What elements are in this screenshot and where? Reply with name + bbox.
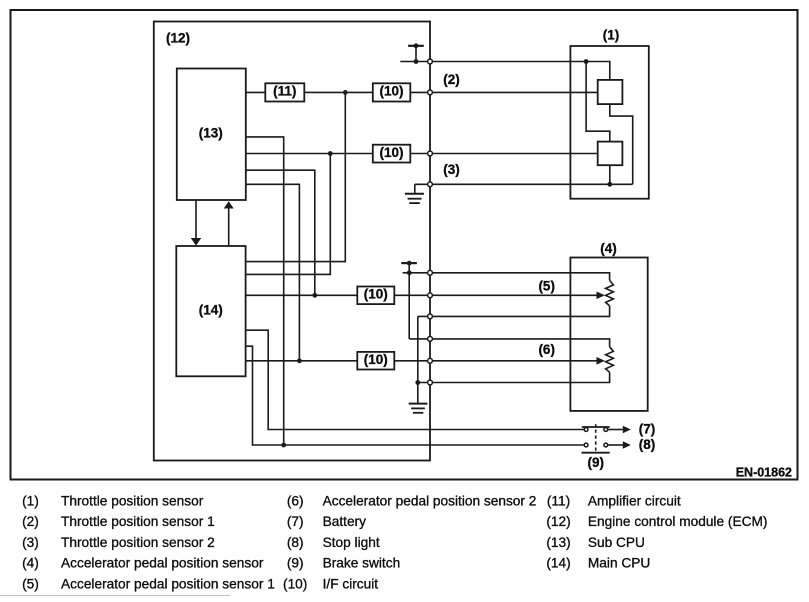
svg-text:Throttle position sensor 1: Throttle position sensor 1 [61, 514, 215, 529]
svg-text:(1): (1) [22, 493, 39, 508]
svg-text:(10): (10) [283, 577, 307, 592]
svg-text:(5): (5) [538, 279, 555, 294]
svg-text:(13): (13) [199, 125, 223, 140]
svg-text:Throttle position sensor: Throttle position sensor [61, 493, 204, 508]
svg-text:Battery: Battery [323, 514, 367, 529]
svg-text:(2): (2) [443, 72, 460, 87]
svg-text:(8): (8) [639, 437, 656, 452]
svg-text:(2): (2) [22, 514, 39, 529]
svg-text:EN-01862: EN-01862 [736, 466, 792, 480]
svg-text:(9): (9) [588, 455, 605, 470]
svg-text:(6): (6) [287, 493, 304, 508]
svg-text:(9): (9) [287, 556, 304, 571]
svg-text:Amplifier circuit: Amplifier circuit [588, 493, 681, 508]
svg-text:Stop light: Stop light [323, 535, 380, 550]
svg-text:Engine control module (ECM): Engine control module (ECM) [588, 514, 768, 529]
svg-text:(4): (4) [22, 556, 39, 571]
svg-text:Accelerator pedal position sen: Accelerator pedal position sensor [61, 556, 264, 571]
svg-text:(5): (5) [22, 577, 39, 592]
svg-text:(11): (11) [547, 493, 570, 508]
svg-text:(6): (6) [538, 342, 555, 357]
svg-text:Throttle position sensor 2: Throttle position sensor 2 [61, 535, 215, 550]
svg-text:Accelerator pedal position sen: Accelerator pedal position sensor 2 [323, 493, 537, 508]
svg-text:(13): (13) [546, 535, 570, 550]
svg-text:(1): (1) [603, 28, 620, 43]
svg-text:(12): (12) [546, 514, 570, 529]
svg-text:(10): (10) [364, 287, 388, 302]
svg-text:(7): (7) [287, 514, 304, 529]
svg-text:(10): (10) [379, 84, 403, 99]
svg-text:(12): (12) [166, 30, 190, 45]
svg-text:(10): (10) [379, 145, 403, 160]
svg-text:(7): (7) [639, 422, 656, 437]
svg-text:Brake switch: Brake switch [323, 556, 401, 571]
svg-text:(10): (10) [364, 352, 388, 367]
svg-text:(14): (14) [546, 556, 570, 571]
svg-text:Sub CPU: Sub CPU [588, 535, 645, 550]
svg-text:(8): (8) [287, 535, 304, 550]
svg-text:(14): (14) [199, 302, 223, 317]
svg-text:(3): (3) [22, 535, 39, 550]
svg-text:(11): (11) [273, 84, 296, 99]
svg-text:Accelerator pedal position sen: Accelerator pedal position sensor 1 [61, 577, 275, 592]
svg-text:I/F circuit: I/F circuit [323, 577, 379, 592]
svg-text:(3): (3) [443, 162, 460, 177]
svg-text:Main CPU: Main CPU [588, 556, 650, 571]
svg-text:(4): (4) [600, 241, 617, 256]
